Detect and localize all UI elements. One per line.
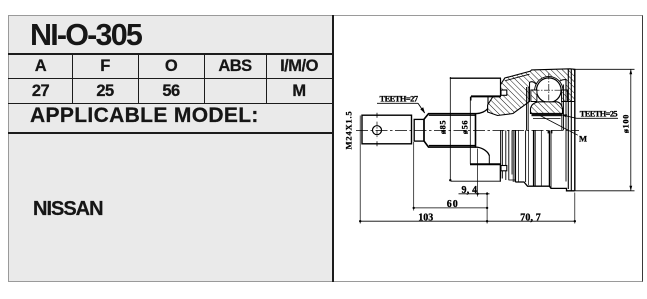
housing back lower edge	[488, 155, 490, 181]
svg-text:M24X1.5: M24X1.5	[344, 111, 354, 150]
buckle tab bottom	[501, 166, 507, 171]
dia85 extension line	[449, 77, 451, 181]
center hole circle	[373, 126, 382, 135]
texts	[30, 18, 141, 53]
cage right rim	[561, 102, 563, 131]
groove ridge verticals bottom	[500, 130, 502, 178]
bell exterior verticals bottom half	[514, 130, 516, 182]
wall inner edge line under slope	[506, 74, 530, 80]
svg-text:ø100: ø100	[622, 114, 631, 133]
bottom dimension extension lines	[359, 116, 361, 224]
race feet marks at centerline	[548, 130, 550, 133]
table horizontal lines	[8, 53, 333, 55]
ball crosshair v	[548, 74, 550, 107]
step section rect	[414, 119, 424, 141]
spline section outline	[424, 114, 476, 147]
cage section left	[531, 90, 537, 102]
dim 60	[414, 207, 487, 209]
center hole vertical crosshair	[376, 122, 378, 139]
inner race spline bore band	[532, 113, 563, 116]
svg-text:TEETH=25: TEETH=25	[580, 109, 618, 118]
ball crosshair h	[534, 89, 565, 91]
svg-text:ø56: ø56	[461, 120, 470, 134]
housing wall hatched section	[488, 69, 575, 116]
svg-text:60: 60	[447, 199, 459, 210]
neck fillet top	[476, 108, 489, 114]
svg-text:TEETH=27: TEETH=27	[380, 95, 418, 104]
thread section rect	[362, 115, 412, 144]
cage left rim	[526, 87, 528, 130]
housing back face top	[487, 96, 489, 108]
svg-text:ø85: ø85	[439, 120, 448, 134]
right panel background	[333, 15, 643, 282]
table vertical lines	[72, 53, 73, 104]
ball	[537, 78, 562, 103]
svg-text:103: 103	[418, 212, 433, 223]
neck fillet bottom	[476, 147, 490, 155]
svg-text:9, 4: 9, 4	[462, 185, 478, 196]
dim 103	[360, 220, 487, 222]
bell groove line mid	[540, 130, 542, 186]
boot band bottom	[450, 164, 500, 181]
dim 70.7	[487, 220, 575, 222]
left panel background	[8, 15, 333, 282]
buckle tab top	[501, 90, 507, 95]
bell bottom profile	[515, 182, 575, 191]
inner race hatched dome	[531, 102, 563, 114]
svg-text:70, 7: 70, 7	[520, 212, 541, 223]
dim 9.4	[459, 193, 490, 195]
boot band top (white block over hatch)	[450, 78, 500, 96]
divider	[332, 15, 334, 282]
svg-text:M: M	[579, 133, 587, 143]
dia100 dimension	[575, 68, 635, 70]
dia56 extension line	[469, 97, 471, 164]
ball track groove (white)	[535, 76, 563, 104]
cage section right	[562, 90, 568, 102]
centerline main	[356, 129, 579, 131]
spline root lines	[429, 114, 476, 116]
front face verticals	[565, 80, 567, 182]
